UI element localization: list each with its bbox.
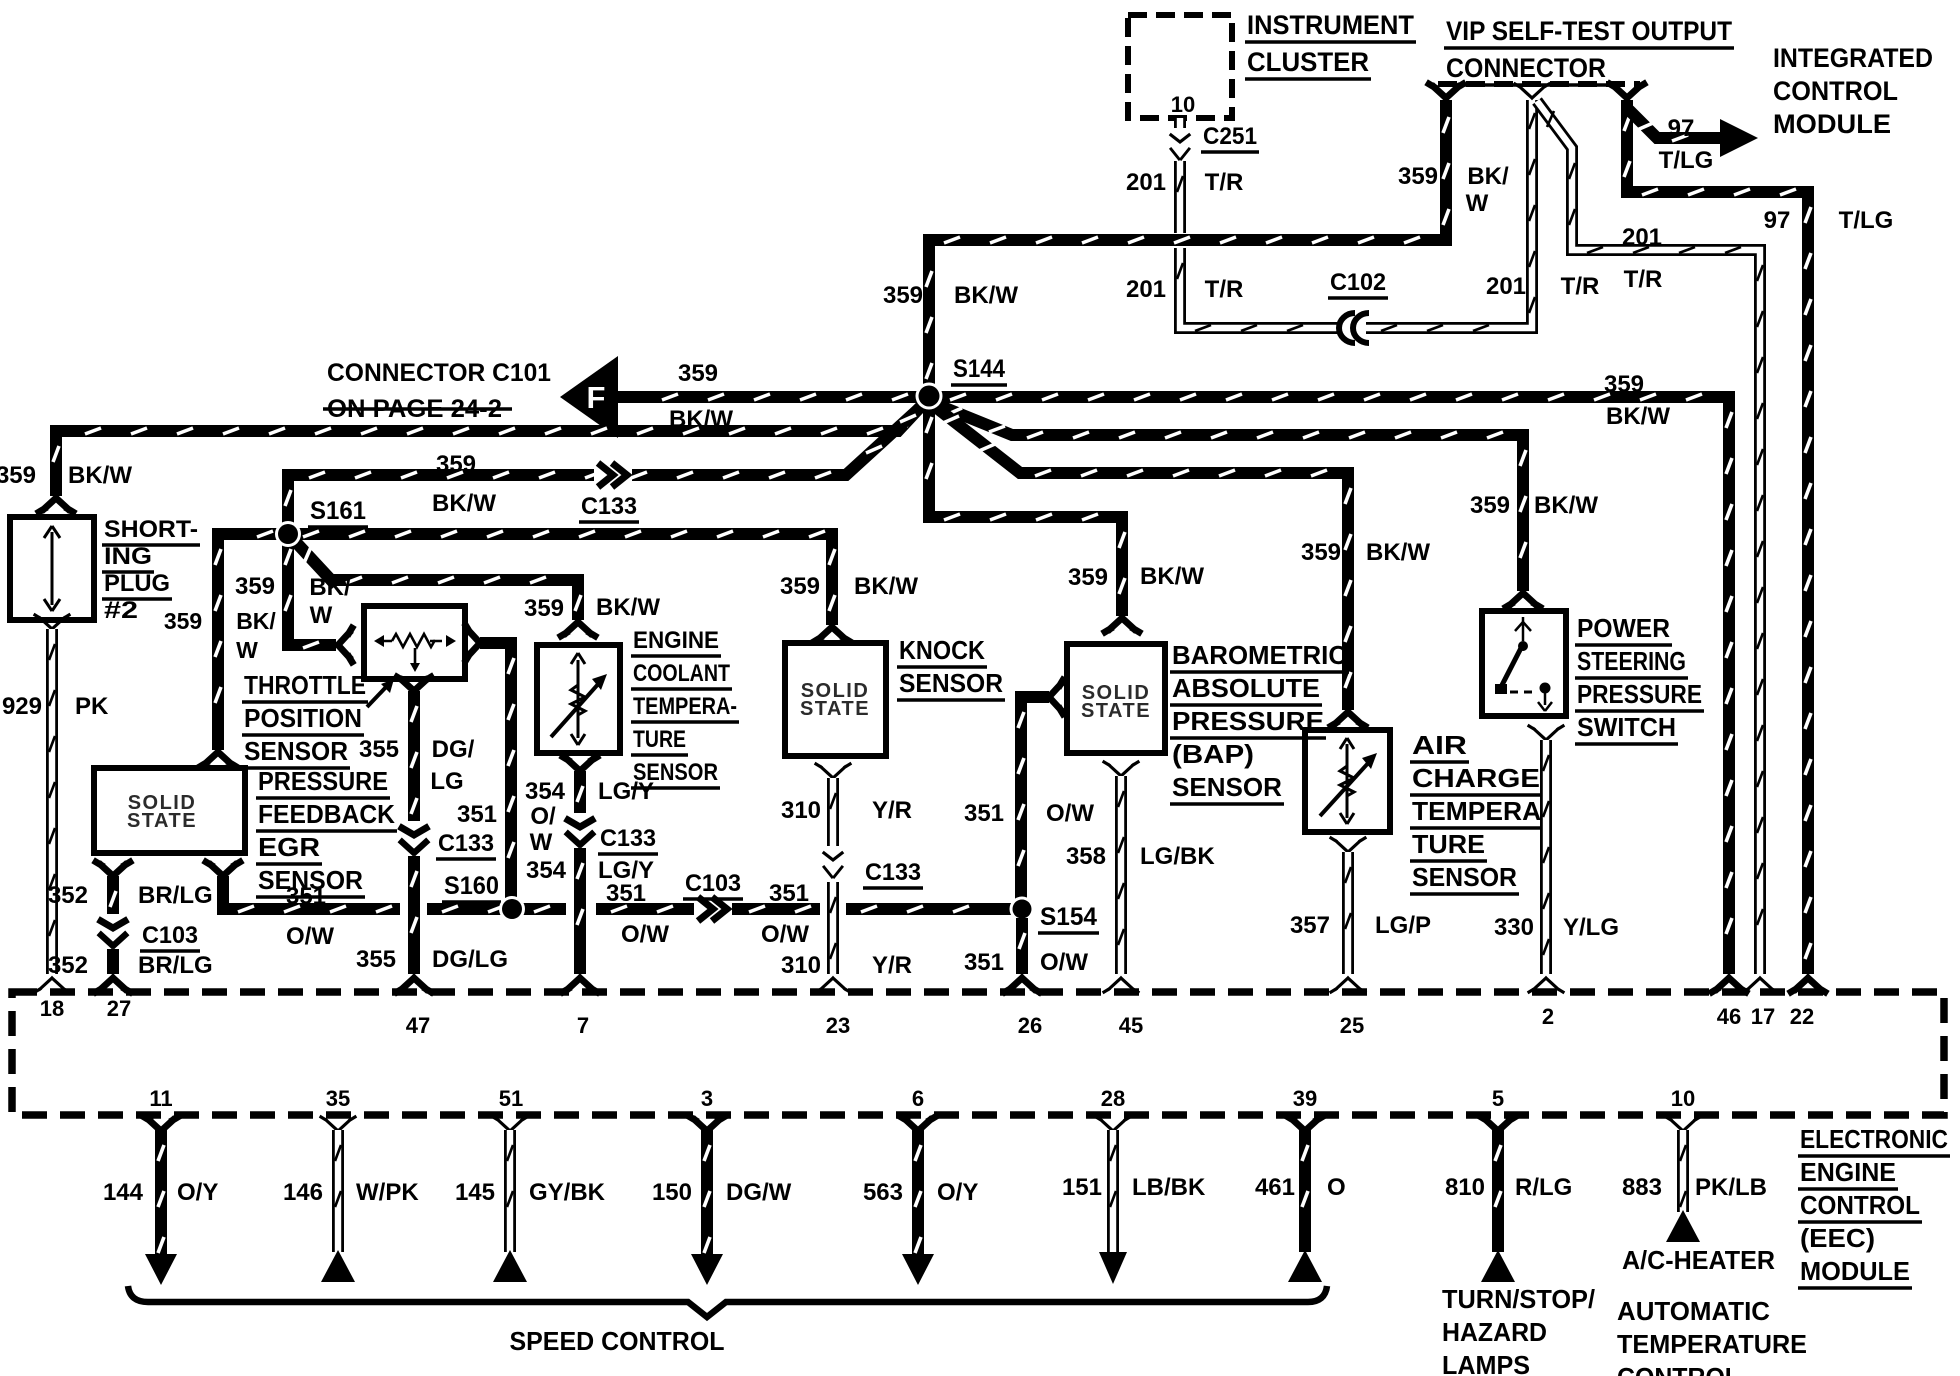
EEC pin 45 terminal bbox=[1104, 978, 1138, 992]
svg-text:T/LG: T/LG bbox=[1839, 207, 1894, 234]
wire 359 BK/W S161 to throttle position sensor bbox=[285, 534, 336, 648]
svg-text:359: 359 bbox=[0, 462, 36, 489]
electronic engine control module (dashed box) bbox=[12, 992, 1944, 1115]
svg-text:(BAP): (BAP) bbox=[1172, 739, 1254, 769]
arrowhead to integrated control module bbox=[1720, 119, 1758, 157]
wire 359 BK/W S144 to power steering pressure switch bbox=[933, 403, 1526, 591]
svg-text:359: 359 bbox=[883, 282, 923, 309]
label 201 T/R (C102 left) bbox=[1126, 276, 1243, 303]
svg-text:CONNECTOR C101: CONNECTOR C101 bbox=[327, 359, 551, 387]
label 351 O/W (pin26 wire) bbox=[964, 949, 1088, 976]
label 354 LG/Y (upper) bbox=[525, 778, 654, 805]
svg-text:MODULE: MODULE bbox=[1800, 1256, 1910, 1286]
svg-text:354: 354 bbox=[526, 857, 567, 884]
svg-text:O/W: O/W bbox=[761, 921, 809, 948]
shorting plug #2 box bbox=[10, 517, 94, 620]
svg-text:T/LG: T/LG bbox=[1659, 147, 1714, 174]
svg-text:O/W: O/W bbox=[286, 923, 334, 950]
speed control brace bbox=[128, 1286, 1327, 1317]
wire 461 O EEC pin 39 to speed control bbox=[1288, 1117, 1322, 1282]
svg-text:352: 352 bbox=[48, 882, 88, 909]
label TURN/STOP/ HAZARD LAMPS bbox=[1442, 1284, 1595, 1376]
svg-text:W: W bbox=[236, 637, 258, 663]
splice S144 bbox=[916, 383, 943, 410]
svg-text:354: 354 bbox=[525, 778, 566, 805]
svg-text:O/: O/ bbox=[530, 803, 556, 830]
EEC pin 25 terminal bbox=[1331, 978, 1365, 992]
label 563 O/Y bbox=[863, 1179, 978, 1206]
svg-text:26: 26 bbox=[1018, 1013, 1042, 1038]
svg-text:R/LG: R/LG bbox=[1515, 1174, 1572, 1201]
wire 150 DG/W EEC pin 3 to speed control bbox=[690, 1117, 724, 1285]
wire 351 O/W bus (to S154) bbox=[846, 906, 1012, 912]
BAP sensor solid state text bbox=[1081, 682, 1151, 722]
svg-text:146: 146 bbox=[283, 1179, 323, 1206]
connector C133 (359 wire) bbox=[594, 463, 632, 487]
wire 151 LB/BK EEC pin 28 bbox=[1096, 1117, 1130, 1284]
knock bottom terminal bbox=[816, 764, 850, 778]
EEC pin 22 terminal bbox=[1791, 978, 1825, 992]
svg-text:DG/: DG/ bbox=[432, 736, 475, 763]
svg-text:ENGINE: ENGINE bbox=[633, 627, 719, 654]
wire 310 Y/R C133 to EEC pin 23 bbox=[830, 882, 836, 974]
knock sensor solid state text bbox=[800, 680, 870, 720]
svg-text:#2: #2 bbox=[104, 597, 138, 624]
label CONNECTOR C101 ON PAGE 24-2 bbox=[323, 359, 551, 423]
svg-text:810: 810 bbox=[1445, 1174, 1485, 1201]
svg-text:563: 563 bbox=[863, 1179, 903, 1206]
arrow F to connector C101 bbox=[560, 356, 618, 438]
power steering switch terminal bbox=[1506, 593, 1540, 607]
svg-text:S144: S144 bbox=[953, 355, 1005, 383]
throttle position sensor box bbox=[364, 606, 465, 679]
wire 97 T/LG branch to integrated control module bbox=[1629, 110, 1726, 141]
svg-text:W/PK: W/PK bbox=[356, 1179, 419, 1206]
coolant bottom terminal bbox=[563, 757, 597, 771]
svg-text:27: 27 bbox=[107, 996, 131, 1021]
wire 351 O/W bus (to S160) bbox=[427, 906, 566, 912]
svg-text:PRESSURE: PRESSURE bbox=[258, 766, 388, 796]
svg-text:355: 355 bbox=[359, 736, 399, 763]
svg-text:C103: C103 bbox=[142, 922, 198, 949]
label 359 BK/W (TPS feed) bbox=[235, 573, 351, 629]
svg-text:BAROMETRIC: BAROMETRIC bbox=[1172, 640, 1347, 670]
label THROTTLE POSITION SENSOR bbox=[242, 670, 368, 768]
label 351 (TPS right wire) bbox=[457, 801, 497, 828]
TPS annotation arrow bbox=[367, 679, 394, 707]
VIP self-test output connector (dashed line) bbox=[1438, 81, 1640, 87]
svg-text:CHARGE: CHARGE bbox=[1412, 763, 1540, 793]
label 359 BK/W (knock feed) bbox=[780, 573, 918, 600]
label 351 O/W (bus right) bbox=[761, 880, 809, 948]
svg-text:SPEED CONTROL: SPEED CONTROL bbox=[510, 1326, 725, 1356]
label C133 (355 wire) bbox=[436, 830, 496, 859]
wire 359 BK/W S144 to VIP pin 1 bbox=[926, 100, 1449, 394]
label S160 bbox=[442, 872, 501, 902]
svg-text:151: 151 bbox=[1062, 1174, 1102, 1201]
svg-text:359: 359 bbox=[235, 573, 275, 600]
label SHORTING PLUG #2 bbox=[102, 516, 200, 624]
svg-text:45: 45 bbox=[1119, 1013, 1143, 1038]
splice S160 bbox=[499, 896, 525, 922]
label C133 (354 wire) bbox=[598, 825, 658, 854]
svg-text:AIR: AIR bbox=[1412, 730, 1467, 760]
VIP pin 2 terminal bbox=[1515, 84, 1549, 98]
EEC pin 46 terminal bbox=[1712, 978, 1746, 992]
label 201 T/R (C251) bbox=[1126, 169, 1243, 196]
label 97 T/LG (ICM arrow) bbox=[1659, 115, 1714, 174]
wire 357 LG/P air charge to EEC pin 25 bbox=[1345, 852, 1351, 974]
svg-text:BK/W: BK/W bbox=[1606, 403, 1670, 430]
wire 359 BK/W S144 to shorting plug #2 bbox=[53, 402, 925, 496]
svg-text:351: 351 bbox=[769, 880, 809, 907]
svg-text:STATE: STATE bbox=[127, 810, 197, 832]
connector C102 bbox=[1339, 311, 1375, 345]
label 201 T/R (branch to pin 17) bbox=[1622, 224, 1662, 293]
svg-text:C133: C133 bbox=[600, 825, 656, 852]
knock sensor box bbox=[785, 643, 886, 756]
label 359 BK/W (S144 riser) bbox=[883, 282, 1018, 309]
svg-text:T/R: T/R bbox=[1205, 169, 1244, 196]
svg-text:T/R: T/R bbox=[1624, 266, 1663, 293]
svg-text:351: 351 bbox=[286, 883, 326, 910]
label 151 LB/BK bbox=[1062, 1174, 1206, 1201]
label 355 DG/LG (lower) bbox=[356, 946, 508, 973]
splice S154 bbox=[1010, 897, 1035, 922]
svg-text:KNOCK: KNOCK bbox=[899, 635, 985, 665]
EGR bottom-right terminal bbox=[206, 862, 240, 876]
svg-text:SENSOR: SENSOR bbox=[899, 668, 1003, 698]
wire 563 O/Y EEC pin 6 to speed control bbox=[901, 1117, 935, 1285]
wire 359 BK/W S161 to pressure feedback EGR sensor bbox=[215, 531, 288, 750]
label 359 BK/W (air charge feed) bbox=[1301, 539, 1430, 566]
label 310 Y/R (upper) bbox=[781, 797, 912, 824]
wire 310 Y/R knock to C133 bbox=[830, 778, 836, 846]
label 810 R/LG bbox=[1445, 1174, 1572, 1201]
connector C133 (354 wire) bbox=[564, 813, 596, 849]
label AUTOMATIC TEMPERATURE CONTROL bbox=[1617, 1296, 1807, 1376]
label VIP SELF-TEST OUTPUT CONNECTOR bbox=[1444, 16, 1734, 85]
svg-text:TURE: TURE bbox=[1412, 829, 1485, 859]
label C133 (310 wire) bbox=[863, 859, 923, 888]
svg-text:PRESSURE: PRESSURE bbox=[1172, 706, 1324, 736]
wire 144 O/Y EEC pin 11 to speed control bbox=[144, 1117, 178, 1285]
svg-text:LG/P: LG/P bbox=[1375, 912, 1431, 939]
svg-text:BK/W: BK/W bbox=[954, 282, 1018, 309]
svg-text:BK/W: BK/W bbox=[596, 594, 660, 621]
svg-text:5: 5 bbox=[1492, 1086, 1504, 1111]
svg-text:MODULE: MODULE bbox=[1773, 109, 1891, 139]
svg-text:LG/Y: LG/Y bbox=[598, 857, 654, 884]
label S154 bbox=[1038, 903, 1099, 933]
svg-text:CONTROL: CONTROL bbox=[1773, 76, 1898, 106]
svg-text:358: 358 bbox=[1066, 843, 1106, 870]
svg-text:BK/W: BK/W bbox=[1140, 563, 1204, 590]
TPS left terminal bbox=[338, 628, 352, 662]
svg-text:C133: C133 bbox=[865, 859, 921, 886]
wire 355 DG/LG TPS to EEC pin 47 (upper) bbox=[411, 691, 417, 822]
svg-text:201: 201 bbox=[1126, 276, 1166, 303]
svg-text:STEERING: STEERING bbox=[1577, 646, 1686, 676]
label KNOCK SENSOR bbox=[897, 635, 1005, 700]
instrument cluster (dashed box) bbox=[1128, 15, 1232, 118]
svg-text:330: 330 bbox=[1494, 914, 1534, 941]
label 359 BK/W (left edge) bbox=[0, 462, 132, 489]
svg-text:310: 310 bbox=[781, 797, 821, 824]
air charge temperature sensor box bbox=[1305, 730, 1390, 832]
svg-text:CONTROL: CONTROL bbox=[1800, 1190, 1920, 1220]
svg-text:HAZARD: HAZARD bbox=[1442, 1317, 1547, 1347]
svg-text:201: 201 bbox=[1622, 224, 1662, 251]
svg-text:BK/W: BK/W bbox=[854, 573, 918, 600]
svg-text:351: 351 bbox=[964, 800, 1004, 827]
label INTEGRATED CONTROL MODULE bbox=[1773, 43, 1933, 139]
svg-text:PRESSURE: PRESSURE bbox=[1577, 679, 1702, 709]
label 461 O bbox=[1255, 1174, 1346, 1201]
wire 351 O/W BAP to S154 bbox=[1018, 697, 1049, 902]
wire 359 BK/W S144 to S161 bbox=[285, 403, 925, 530]
svg-text:7: 7 bbox=[577, 1013, 589, 1038]
svg-text:351: 351 bbox=[606, 880, 646, 907]
svg-text:10: 10 bbox=[1671, 1086, 1695, 1111]
VIP pin 3 terminal bbox=[1610, 84, 1644, 98]
connector C133 (310 wire) bbox=[820, 846, 846, 882]
wire 145 GY/BK EEC pin 51 to speed control bbox=[493, 1117, 527, 1282]
label 359 BK/W (VIP pin1 riser) bbox=[1398, 163, 1509, 217]
svg-text:201: 201 bbox=[1126, 169, 1166, 196]
svg-text:S161: S161 bbox=[310, 497, 366, 525]
wire 883 PK/LB EEC pin 10 to A/C-heater bbox=[1666, 1117, 1700, 1242]
wire 352 BR/LG EGR to C103 bbox=[110, 876, 116, 915]
label 97 T/LG (right run) bbox=[1764, 207, 1894, 234]
svg-text:PLUG: PLUG bbox=[104, 570, 170, 597]
svg-text:ING: ING bbox=[104, 543, 152, 570]
svg-text:201: 201 bbox=[1486, 273, 1526, 300]
svg-text:359: 359 bbox=[1604, 371, 1644, 398]
svg-text:BK/: BK/ bbox=[309, 574, 351, 601]
svg-text:INSTRUMENT: INSTRUMENT bbox=[1247, 10, 1414, 40]
svg-text:DG/W: DG/W bbox=[726, 1179, 792, 1206]
EGR sensor solid state text bbox=[127, 792, 197, 832]
svg-text:CLUSTER: CLUSTER bbox=[1247, 47, 1369, 77]
svg-text:355: 355 bbox=[356, 946, 396, 973]
air charge bottom terminal bbox=[1331, 838, 1365, 852]
label INSTRUMENT CLUSTER bbox=[1245, 10, 1416, 79]
svg-text:357: 357 bbox=[1290, 912, 1330, 939]
svg-text:STATE: STATE bbox=[1081, 700, 1151, 722]
wire 358 LG/BK BAP to EEC pin 45 bbox=[1118, 776, 1124, 974]
svg-text:BR/LG: BR/LG bbox=[138, 882, 213, 909]
svg-text:359: 359 bbox=[678, 360, 718, 387]
label 359 BK/W (coolant feed) bbox=[524, 594, 660, 622]
wire 351 O/W TPS to S160 bbox=[480, 643, 514, 902]
svg-text:359: 359 bbox=[1398, 163, 1438, 190]
label 351 O/W (bus left) bbox=[286, 883, 334, 950]
svg-text:359: 359 bbox=[164, 608, 202, 634]
air charge thermistor symbol bbox=[1320, 738, 1377, 824]
wire 355 DG/LG (lower) bbox=[411, 856, 417, 974]
wire 201 T/R C102 to VIP pin 2 bbox=[1366, 100, 1535, 331]
label PRESSURE FEEDBACK EGR SENSOR bbox=[256, 766, 397, 897]
barometric absolute pressure sensor box bbox=[1067, 644, 1165, 753]
svg-text:BK/W: BK/W bbox=[1366, 539, 1430, 566]
svg-text:BK/W: BK/W bbox=[68, 462, 132, 489]
label 330 Y/LG bbox=[1494, 914, 1619, 941]
label 358 LG/BK bbox=[1066, 843, 1215, 870]
svg-text:SENSOR: SENSOR bbox=[1172, 772, 1282, 802]
svg-text:359: 359 bbox=[1301, 539, 1341, 566]
TPS right terminal bbox=[466, 626, 480, 660]
wire 354 LG/Y C133 to EEC pin 7 bbox=[577, 848, 583, 974]
air charge sensor top terminal bbox=[1331, 712, 1365, 726]
wire 351 O/W S154 to EEC pin 26 bbox=[1019, 918, 1025, 974]
BAP bottom terminal bbox=[1104, 762, 1138, 776]
BAP left terminal bbox=[1049, 680, 1063, 714]
svg-text:EGR: EGR bbox=[258, 832, 320, 862]
svg-text:POSITION: POSITION bbox=[244, 703, 362, 733]
label SPEED CONTROL bbox=[510, 1326, 725, 1356]
svg-text:BK/W: BK/W bbox=[432, 490, 496, 517]
connector C103 (351 bus) bbox=[694, 897, 732, 921]
wire 359 BK/W S161 to knock sensor bbox=[288, 531, 835, 625]
svg-text:351: 351 bbox=[457, 801, 497, 828]
svg-text:T/R: T/R bbox=[1561, 273, 1600, 300]
pressure feedback EGR sensor box bbox=[94, 768, 245, 853]
label 310 Y/R (lower) bbox=[781, 952, 912, 979]
label 883 PK/LB bbox=[1622, 1174, 1767, 1201]
svg-text:6: 6 bbox=[912, 1086, 924, 1111]
svg-text:C103: C103 bbox=[685, 870, 741, 897]
connector C103 (352 wire) bbox=[97, 914, 129, 950]
svg-text:SENSOR: SENSOR bbox=[244, 736, 348, 766]
svg-text:A/C-HEATER: A/C-HEATER bbox=[1622, 1245, 1775, 1275]
wire 201 T/R instrument cluster to C251 bbox=[1174, 118, 1186, 131]
svg-text:Y/R: Y/R bbox=[872, 797, 912, 824]
engine coolant temperature sensor box bbox=[537, 645, 620, 753]
EGR sensor top terminal bbox=[201, 752, 235, 766]
shorting plug bottom terminal bbox=[35, 615, 69, 629]
wire 351 O/W bus (S160 to 310 crossing) bbox=[596, 906, 820, 912]
shorting plug internal arrow bbox=[44, 526, 60, 611]
svg-text:PK/LB: PK/LB bbox=[1695, 1174, 1767, 1201]
label AIR CHARGE TEMPERATURE SENSOR bbox=[1410, 730, 1552, 894]
svg-text:TURN/STOP/: TURN/STOP/ bbox=[1442, 1284, 1595, 1314]
EEC pin numbers (bottom row) bbox=[149, 1086, 1695, 1111]
svg-text:359: 359 bbox=[436, 451, 476, 478]
EEC pin 7 terminal bbox=[563, 978, 597, 992]
svg-text:97: 97 bbox=[1764, 207, 1791, 234]
VIP pin 1 terminal bbox=[1429, 84, 1463, 98]
svg-text:BK/: BK/ bbox=[236, 608, 276, 634]
svg-text:351: 351 bbox=[964, 949, 1004, 976]
svg-text:TEMPERA-: TEMPERA- bbox=[633, 693, 737, 720]
svg-text:ENGINE: ENGINE bbox=[1800, 1157, 1896, 1187]
svg-text:10: 10 bbox=[1171, 92, 1195, 117]
label A/C-HEATER bbox=[1622, 1245, 1775, 1275]
EEC pin 23 terminal bbox=[816, 978, 850, 992]
label 352 BR/LG (upper) bbox=[48, 882, 213, 909]
instrument cluster pin 10 bbox=[1171, 92, 1195, 117]
svg-text:W: W bbox=[310, 602, 333, 629]
svg-text:97: 97 bbox=[1668, 115, 1695, 142]
wire 201 T/R VIP pin 2 branch to EEC pin 17 bbox=[1537, 101, 1763, 974]
svg-text:Y/R: Y/R bbox=[872, 952, 912, 979]
label 357 LG/P bbox=[1290, 912, 1431, 939]
wire 359 BK/W S144 to connector C101 bbox=[615, 394, 923, 400]
label O/W (TPS right wire) bbox=[530, 803, 556, 856]
label 145 GY/BK bbox=[455, 1179, 606, 1206]
label BAROMETRIC ABSOLUTE PRESSURE (BAP) SENSOR bbox=[1170, 640, 1349, 804]
splice S161 bbox=[275, 521, 301, 547]
svg-text:18: 18 bbox=[40, 996, 64, 1021]
label 351 O/W (BAP left wire) bbox=[964, 800, 1094, 827]
svg-text:SWITCH: SWITCH bbox=[1577, 712, 1676, 742]
svg-text:INTEGRATED: INTEGRATED bbox=[1773, 43, 1933, 73]
EGR bottom-left terminal bbox=[96, 862, 130, 876]
svg-text:35: 35 bbox=[326, 1086, 350, 1111]
coolant sensor thermistor symbol bbox=[551, 653, 607, 745]
EEC pin 17 terminal bbox=[1743, 978, 1777, 992]
svg-text:359: 359 bbox=[1470, 492, 1510, 519]
svg-text:O/W: O/W bbox=[1046, 800, 1094, 827]
svg-text:TEMPERA-: TEMPERA- bbox=[1412, 796, 1550, 826]
svg-text:S154: S154 bbox=[1040, 903, 1097, 931]
svg-text:883: 883 bbox=[1622, 1174, 1662, 1201]
EEC pin 47 terminal bbox=[397, 978, 431, 992]
svg-text:ABSOLUTE: ABSOLUTE bbox=[1172, 673, 1320, 703]
shorting plug terminal bbox=[39, 498, 73, 512]
wire 929 PK shorting plug to EEC pin 18 bbox=[49, 629, 55, 974]
svg-text:LG: LG bbox=[430, 768, 463, 795]
svg-text:ELECTRONIC: ELECTRONIC bbox=[1800, 1124, 1948, 1154]
wire 146 W/PK EEC pin 35 to speed control bbox=[321, 1117, 355, 1282]
label 351 C103 (bus mid) bbox=[606, 870, 743, 948]
svg-text:GY/BK: GY/BK bbox=[529, 1179, 606, 1206]
svg-text:SENSOR: SENSOR bbox=[1412, 862, 1517, 892]
TPS potentiometer symbol bbox=[374, 634, 456, 672]
svg-text:359: 359 bbox=[780, 573, 820, 600]
wire 201 T/R C251 to C102 to VIP connector (upper part) bbox=[1177, 161, 1183, 233]
power steering pressure switch box bbox=[1482, 611, 1566, 716]
connector C251 bbox=[1167, 128, 1193, 164]
wire 351 O/W bus (EGR to 355 crossing) bbox=[223, 876, 400, 912]
svg-text:C251: C251 bbox=[1203, 123, 1257, 150]
label C102 bbox=[1328, 269, 1388, 298]
svg-text:929: 929 bbox=[2, 693, 42, 720]
label S161 bbox=[308, 497, 368, 527]
svg-text:TURE: TURE bbox=[633, 726, 686, 753]
label 359 BK/W (near pin46 turn) bbox=[1604, 371, 1670, 430]
svg-text:C102: C102 bbox=[1330, 269, 1386, 296]
label 354 LG/Y (lower) bbox=[526, 857, 654, 884]
wire 354 LG/Y coolant to C133 bbox=[577, 771, 583, 814]
svg-text:LB/BK: LB/BK bbox=[1132, 1174, 1206, 1201]
svg-text:C133: C133 bbox=[438, 830, 494, 857]
label 359 BK/W (arrow F wire) bbox=[669, 360, 733, 433]
svg-text:461: 461 bbox=[1255, 1174, 1295, 1201]
BAP sensor top terminal bbox=[1105, 618, 1139, 632]
svg-text:W: W bbox=[1466, 190, 1489, 217]
svg-text:359: 359 bbox=[1068, 564, 1108, 591]
svg-text:O/Y: O/Y bbox=[937, 1179, 978, 1206]
svg-text:T/R: T/R bbox=[1205, 276, 1244, 303]
svg-text:CONNECTOR: CONNECTOR bbox=[1446, 53, 1606, 83]
label C251 bbox=[1201, 123, 1259, 152]
label 359 BK/W (PS feed) bbox=[1470, 492, 1598, 519]
svg-text:46: 46 bbox=[1717, 1004, 1741, 1029]
svg-text:11: 11 bbox=[149, 1086, 172, 1111]
svg-text:S160: S160 bbox=[444, 872, 499, 900]
